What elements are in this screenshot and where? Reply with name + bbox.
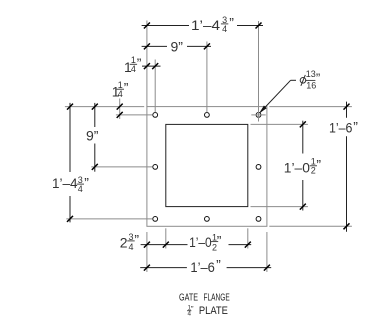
- svg-text:3: 3: [128, 232, 133, 242]
- svg-text:2: 2: [311, 166, 316, 176]
- svg-text:9”: 9”: [86, 128, 99, 144]
- svg-text:9”: 9”: [171, 39, 184, 55]
- svg-text:1’–0: 1’–0: [284, 160, 310, 176]
- svg-text:1’–0: 1’–0: [189, 234, 212, 250]
- svg-text:1’–6: 1’–6: [190, 259, 215, 275]
- svg-text:”: ”: [84, 175, 89, 191]
- svg-text:”: ”: [217, 233, 222, 249]
- svg-text:PLATE: PLATE: [199, 305, 228, 317]
- svg-text:”: ”: [137, 55, 142, 71]
- svg-text:1’–4: 1’–4: [191, 17, 220, 33]
- svg-text:13: 13: [306, 69, 316, 79]
- svg-text:”: ”: [229, 14, 234, 30]
- svg-text:”: ”: [134, 231, 139, 247]
- svg-text:”: ”: [124, 80, 129, 96]
- svg-text:4: 4: [128, 242, 133, 252]
- svg-text:4: 4: [131, 64, 136, 74]
- svg-text:1’–4: 1’–4: [52, 175, 78, 191]
- svg-text:FLANGE: FLANGE: [204, 293, 230, 304]
- svg-text:”: ”: [216, 257, 221, 273]
- svg-text:2: 2: [120, 234, 128, 250]
- svg-text:16: 16: [306, 80, 316, 90]
- svg-text:GATE: GATE: [179, 293, 198, 304]
- svg-text:”: ”: [353, 119, 358, 135]
- svg-text:”: ”: [316, 156, 321, 172]
- svg-text:1’–6: 1’–6: [329, 120, 353, 136]
- svg-text:4: 4: [118, 89, 123, 99]
- svg-text:4: 4: [78, 184, 83, 194]
- svg-text:”: ”: [316, 70, 320, 85]
- svg-text:4: 4: [222, 24, 227, 34]
